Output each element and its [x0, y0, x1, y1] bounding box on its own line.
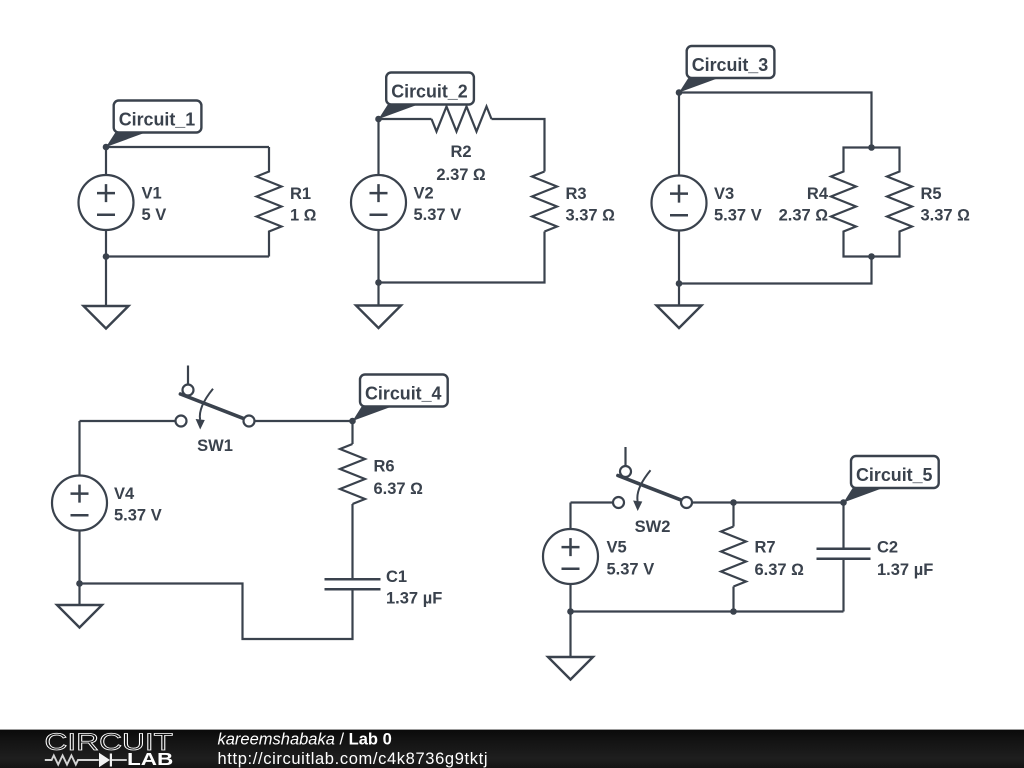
- label C2 value: [877, 539, 933, 580]
- wire C2 to bottom: [842, 559, 844, 612]
- wire SW2 to C2 node: [692, 501, 844, 503]
- svg-text:Circuit_3: Circuit_3: [692, 54, 769, 75]
- voltage source V3: [652, 176, 707, 231]
- svg-text:R2: R2: [450, 143, 471, 161]
- label R4 value: [779, 185, 829, 225]
- wire node to R7: [732, 503, 734, 527]
- wire V3 bottom lead: [678, 230, 680, 284]
- resistor R5 (right branch): [872, 148, 913, 257]
- node A1 bottom junction: [103, 253, 110, 260]
- capacitor C1: [325, 579, 381, 589]
- label C1 value: [386, 568, 442, 608]
- wire R3 to bottom node: [379, 232, 545, 283]
- node A2 top: [375, 116, 382, 123]
- svg-text:6.37 Ω: 6.37 Ω: [755, 561, 805, 579]
- wire R2 to R3: [492, 119, 545, 172]
- svg-text:V4: V4: [114, 485, 135, 503]
- wire R7 to bottom: [732, 587, 734, 612]
- svg-text:kareemshabaka / Lab 0: kareemshabaka / Lab 0: [218, 731, 392, 749]
- logo resistor-diode squiggle: [45, 753, 127, 767]
- svg-text:Circuit_2: Circuit_2: [391, 81, 468, 102]
- wire top node to R1: [106, 146, 269, 148]
- ground (Circuit_5): [548, 612, 593, 680]
- svg-text:SW1: SW1: [197, 437, 233, 455]
- wire node to R6: [351, 421, 353, 444]
- label R2 value: [436, 143, 486, 184]
- svg-text:Circuit_1: Circuit_1: [119, 109, 196, 130]
- svg-text:R6: R6: [374, 458, 395, 476]
- callout Circuit_3: [679, 46, 774, 93]
- ground (Circuit_4): [57, 584, 102, 628]
- svg-text:R4: R4: [807, 185, 829, 203]
- label R3 value: [566, 185, 616, 225]
- label R6 value: [374, 458, 424, 499]
- resistor R2: [432, 107, 492, 132]
- label V5 value: [607, 539, 655, 579]
- node A2 bottom junction: [375, 279, 382, 286]
- voltage source V4: [52, 476, 107, 531]
- wire V5 bottom lead: [569, 584, 571, 612]
- svg-text:Circuit_5: Circuit_5: [856, 464, 933, 485]
- svg-text:3.37 Ω: 3.37 Ω: [566, 207, 616, 225]
- label V2 value: [414, 185, 462, 225]
- svg-text:V1: V1: [142, 185, 162, 203]
- wire C1 to ground node: [80, 584, 353, 640]
- callout Circuit_4: [353, 375, 448, 422]
- ground (Circuit_3): [657, 284, 702, 329]
- callout Circuit_2: [379, 73, 474, 120]
- svg-text:5 V: 5 V: [142, 206, 167, 224]
- label R5 value: [921, 185, 971, 225]
- svg-text:Circuit_4: Circuit_4: [365, 383, 442, 404]
- node B4 bottom junction: [76, 580, 83, 587]
- wire V2 bottom lead: [377, 229, 379, 283]
- node C5-C2 top: [840, 499, 847, 506]
- resistor R6: [340, 444, 365, 504]
- wire V4 bottom lead: [78, 530, 80, 584]
- svg-text:5.37 V: 5.37 V: [114, 507, 162, 525]
- svg-text:C2: C2: [877, 539, 898, 557]
- switch SW2: [613, 447, 692, 511]
- svg-text:R7: R7: [755, 539, 776, 557]
- capacitor C2: [817, 549, 871, 559]
- svg-text:5.37 V: 5.37 V: [607, 561, 655, 579]
- wire V5 to switch SW2: [571, 501, 614, 503]
- callout Circuit_5: [844, 456, 939, 503]
- wire V4 to switch SW1: [80, 420, 176, 422]
- node parallel top: [868, 144, 875, 151]
- node A1 top: [103, 144, 110, 151]
- voltage source V5: [543, 529, 598, 584]
- svg-text:V5: V5: [607, 539, 627, 557]
- wire V2 top lead: [377, 119, 379, 176]
- wire V3 top lead: [678, 93, 680, 177]
- label R7 value: [755, 539, 805, 580]
- node A3 top: [676, 89, 683, 96]
- svg-text:2.37 Ω: 2.37 Ω: [436, 166, 486, 184]
- svg-text:C1: C1: [386, 568, 407, 586]
- svg-text:3.37 Ω: 3.37 Ω: [921, 207, 971, 225]
- svg-text:R5: R5: [921, 185, 942, 203]
- resistor R3: [532, 172, 557, 232]
- wire bottom rail: [571, 610, 844, 612]
- ground (Circuit_1): [84, 257, 129, 329]
- svg-text:LAB: LAB: [127, 749, 173, 768]
- voltage source V1: [79, 175, 134, 230]
- svg-text:V2: V2: [414, 185, 434, 203]
- svg-text:http://circuitlab.com/c4k8736g: http://circuitlab.com/c4k8736g9tktj: [218, 750, 488, 768]
- wire V5 top lead: [569, 503, 571, 530]
- wire V4 top lead: [78, 421, 80, 476]
- ground (Circuit_2): [356, 283, 401, 329]
- svg-text:1 Ω: 1 Ω: [290, 207, 317, 225]
- resistor R1: [257, 147, 282, 257]
- wire SW1 to node: [255, 420, 353, 422]
- label V1 value: [142, 185, 167, 225]
- svg-text:1.37 µF: 1.37 µF: [877, 561, 933, 579]
- wire V1 top lead: [105, 147, 107, 176]
- label V4 value: [114, 485, 162, 525]
- svg-text:R3: R3: [566, 185, 587, 203]
- callout Circuit_1: [106, 101, 201, 148]
- resistor R7: [721, 527, 746, 587]
- svg-text:5.37 V: 5.37 V: [714, 207, 762, 225]
- label V3 value: [714, 185, 762, 225]
- label R1 value: [290, 185, 317, 225]
- node parallel bottom: [868, 253, 875, 260]
- voltage source V2: [351, 175, 406, 230]
- svg-text:SW2: SW2: [635, 518, 671, 536]
- node C5 ground junction: [567, 608, 574, 615]
- svg-text:2.37 Ω: 2.37 Ω: [779, 207, 829, 225]
- wire top node to parallel pair: [679, 93, 872, 148]
- wire R6 to C1: [351, 504, 353, 578]
- wire bottom R1 to node: [106, 255, 269, 257]
- wire node to R2: [379, 118, 432, 120]
- node C5-R7 top: [730, 499, 737, 506]
- resistor R4 (left branch): [831, 148, 872, 257]
- node B4 top: [349, 418, 356, 425]
- node C5 R7 bottom junction: [730, 608, 737, 615]
- wire V1 bottom lead: [105, 229, 107, 257]
- svg-text:R1: R1: [290, 185, 311, 203]
- svg-text:5.37 V: 5.37 V: [414, 206, 462, 224]
- node A3 bottom junction: [676, 280, 683, 287]
- wire parallel bottom to ground node: [679, 257, 872, 284]
- wire node to C2: [842, 503, 844, 549]
- svg-text:6.37 Ω: 6.37 Ω: [374, 480, 424, 498]
- svg-text:V3: V3: [714, 185, 734, 203]
- svg-text:1.37 µF: 1.37 µF: [386, 590, 442, 608]
- switch SW1: [176, 366, 255, 430]
